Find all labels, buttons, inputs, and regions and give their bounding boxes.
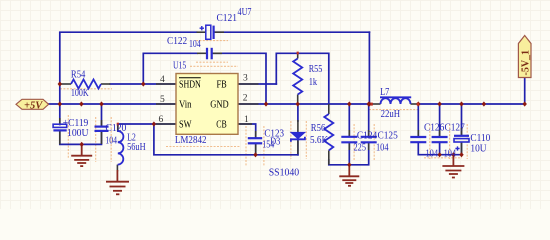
svg-text:225: 225 bbox=[354, 143, 367, 154]
svg-text:L7: L7 bbox=[380, 87, 389, 98]
svg-text:C120: C120 bbox=[105, 123, 126, 134]
svg-text:C124: C124 bbox=[357, 131, 377, 142]
svg-text:FB: FB bbox=[217, 79, 227, 90]
svg-text:C122: C122 bbox=[167, 36, 187, 47]
svg-text:D3: D3 bbox=[270, 137, 280, 148]
svg-text:6: 6 bbox=[159, 115, 164, 125]
svg-text:GND: GND bbox=[210, 100, 229, 111]
svg-text:SW: SW bbox=[179, 119, 192, 130]
svg-text:Vin: Vin bbox=[179, 100, 192, 111]
svg-text:C110: C110 bbox=[470, 133, 490, 144]
svg-text:C127: C127 bbox=[445, 123, 465, 134]
svg-text:22uH: 22uH bbox=[381, 109, 401, 120]
svg-text:LM2842: LM2842 bbox=[175, 135, 207, 146]
svg-text:104: 104 bbox=[444, 149, 457, 160]
svg-text:R54: R54 bbox=[71, 70, 86, 81]
svg-text:104: 104 bbox=[426, 149, 439, 160]
svg-text:1k: 1k bbox=[309, 77, 318, 88]
svg-text:C125: C125 bbox=[378, 131, 398, 142]
svg-text:R56: R56 bbox=[311, 123, 326, 134]
svg-text:4: 4 bbox=[160, 75, 165, 85]
svg-text:104: 104 bbox=[376, 143, 389, 154]
svg-text:+5V: +5V bbox=[24, 100, 43, 111]
svg-text:C121: C121 bbox=[217, 13, 238, 24]
svg-text:SHDN: SHDN bbox=[179, 79, 201, 90]
svg-text:10U: 10U bbox=[470, 144, 487, 155]
svg-text:56uH: 56uH bbox=[127, 142, 146, 153]
svg-text:104: 104 bbox=[105, 136, 117, 147]
svg-text:-5V_1: -5V_1 bbox=[521, 50, 532, 76]
svg-text:2: 2 bbox=[243, 94, 248, 104]
svg-text:U15: U15 bbox=[173, 61, 186, 72]
svg-text:SS1040: SS1040 bbox=[269, 168, 300, 179]
svg-text:3: 3 bbox=[243, 74, 248, 84]
svg-text:5: 5 bbox=[160, 95, 165, 105]
svg-text:C126: C126 bbox=[424, 123, 444, 134]
svg-text:100U: 100U bbox=[67, 128, 89, 139]
svg-text:CB: CB bbox=[216, 119, 227, 130]
svg-text:4U7: 4U7 bbox=[238, 7, 252, 18]
svg-text:5.6K: 5.6K bbox=[310, 135, 329, 146]
svg-text:R55: R55 bbox=[309, 64, 323, 75]
svg-text:104: 104 bbox=[189, 39, 201, 50]
svg-text:1: 1 bbox=[244, 115, 249, 125]
svg-text:100K: 100K bbox=[71, 88, 89, 99]
